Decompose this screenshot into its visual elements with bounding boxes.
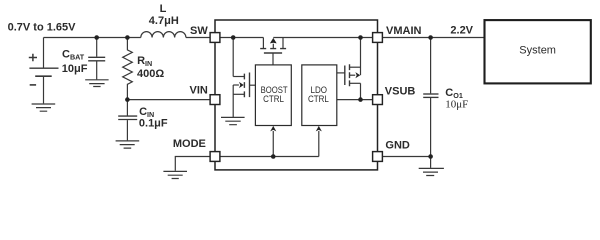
svg-text:System: System	[519, 44, 556, 56]
svg-text:0.1μF: 0.1μF	[139, 118, 168, 130]
svg-text:MODE: MODE	[173, 138, 206, 150]
svg-text:VSUB: VSUB	[385, 86, 416, 98]
svg-text:CTRL: CTRL	[308, 94, 329, 104]
svg-text:VIN: VIN	[190, 84, 208, 96]
svg-text:10μF: 10μF	[445, 99, 468, 111]
svg-text:400Ω: 400Ω	[137, 68, 164, 80]
svg-text:4.7μH: 4.7μH	[149, 15, 179, 27]
svg-text:0.7V to 1.65V: 0.7V to 1.65V	[8, 22, 77, 34]
svg-text:L: L	[160, 3, 167, 15]
svg-text:CBAT: CBAT	[62, 48, 85, 61]
svg-text:CTRL: CTRL	[263, 94, 284, 104]
svg-text:RIN: RIN	[137, 55, 152, 68]
svg-text:2.2V: 2.2V	[450, 24, 473, 36]
svg-text:GND: GND	[385, 140, 410, 152]
svg-text:SW: SW	[190, 25, 208, 37]
svg-text:10μF: 10μF	[62, 63, 88, 75]
svg-text:VMAIN: VMAIN	[386, 25, 422, 37]
